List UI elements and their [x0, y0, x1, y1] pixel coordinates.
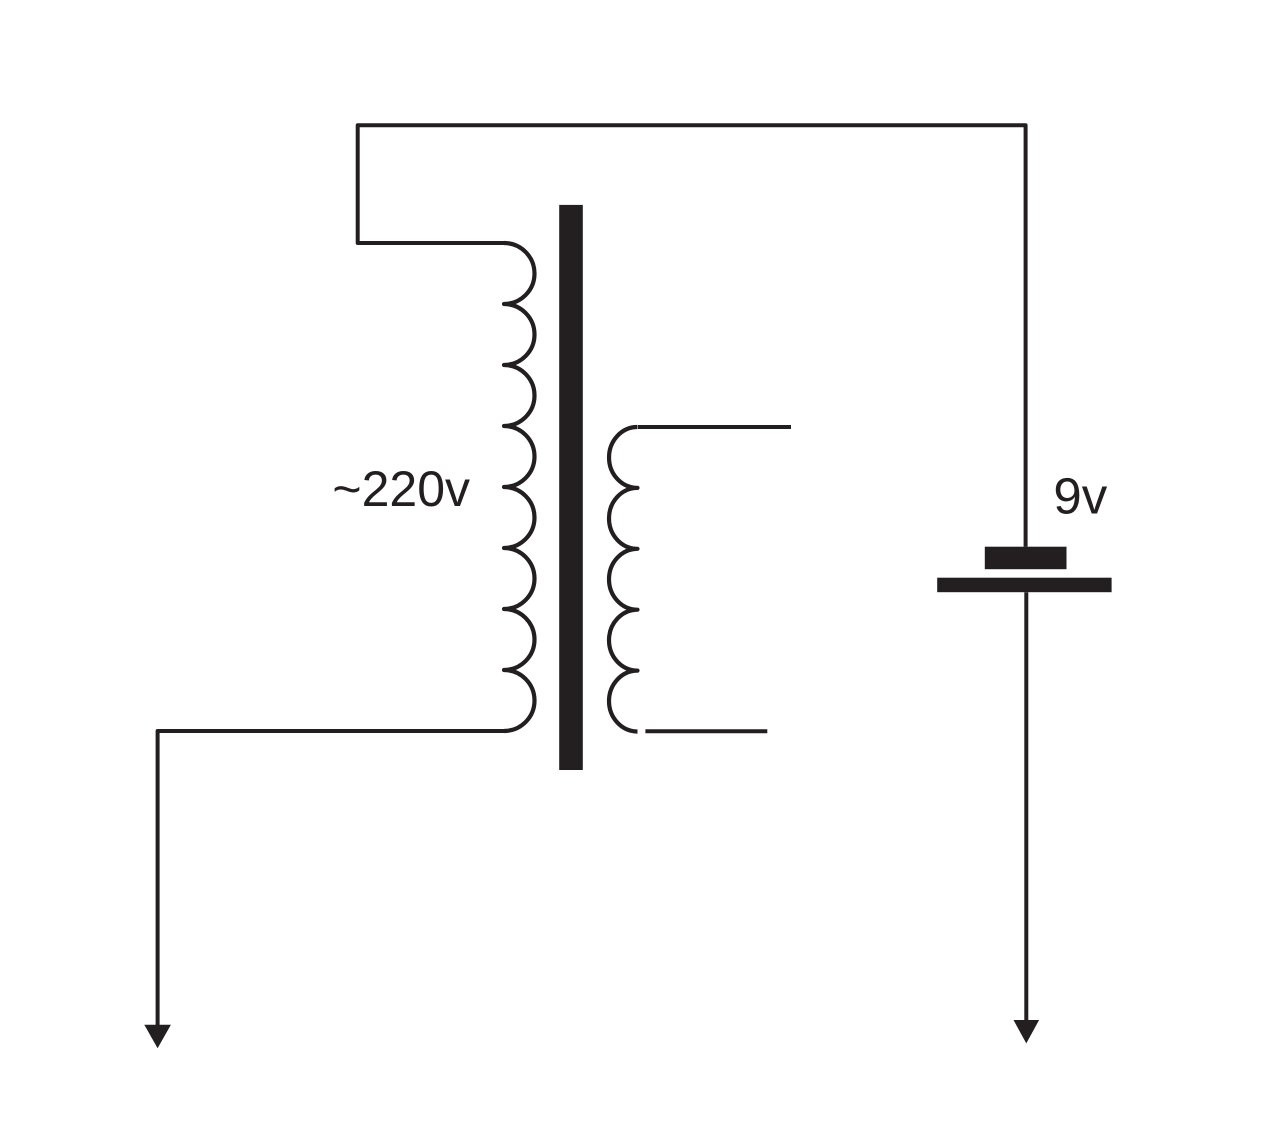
svg-text:9v: 9v	[1053, 468, 1107, 525]
svg-text:~220v: ~220v	[332, 461, 470, 517]
